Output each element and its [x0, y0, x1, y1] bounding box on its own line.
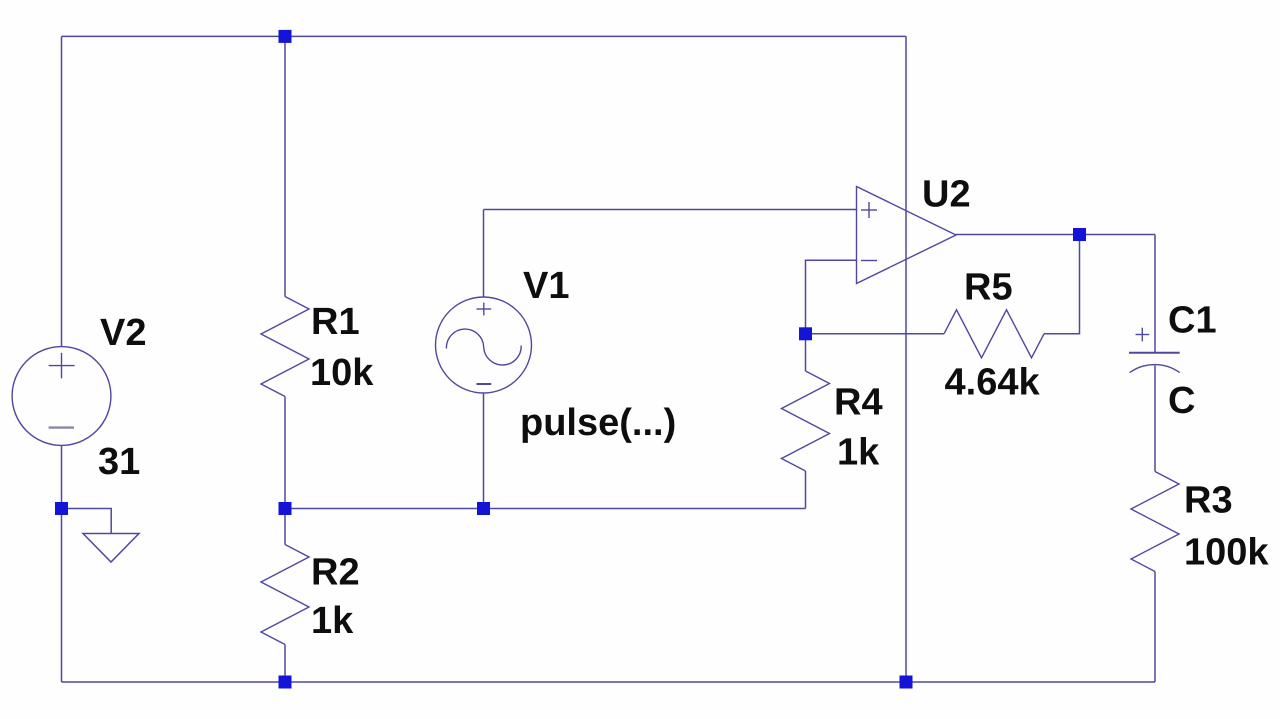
node junction op-amp output: [1073, 228, 1086, 241]
svg-text:100k: 100k: [1184, 532, 1269, 574]
svg-text:V2: V2: [100, 312, 146, 354]
svg-text:C: C: [1168, 380, 1195, 422]
svg-text:pulse(...): pulse(...): [520, 402, 676, 444]
wire R4 top riser: [805, 334, 807, 371]
svg-text:C1: C1: [1168, 300, 1217, 342]
svg-text:10k: 10k: [310, 352, 374, 394]
node junction V2 ground: [55, 502, 68, 515]
wire C1 bottom to R3 top: [1154, 365, 1156, 471]
node junction bottom R2: [279, 676, 292, 689]
resistor R5: [944, 310, 1044, 358]
wire to op-amp noninverting input: [484, 209, 857, 211]
node junction V1 bottom: [477, 502, 490, 515]
wire ground node down to bottom rail: [61, 509, 63, 683]
svg-text:R1: R1: [311, 301, 360, 343]
node junction R1 R2 mid: [279, 502, 292, 515]
node junction top R1: [279, 30, 292, 43]
svg-text:1k: 1k: [837, 432, 880, 474]
wire R2 bottom to bottom rail: [284, 645, 286, 683]
wire R3 bottom to bottom rail: [1154, 572, 1156, 683]
svg-text:31: 31: [98, 441, 140, 483]
wire mid rail: [285, 508, 806, 510]
wire R1 branch from top rail: [284, 36, 286, 296]
svg-text:U2: U2: [922, 174, 971, 216]
wire R1 bottom to mid node: [284, 397, 286, 509]
op-amp U2: [857, 187, 957, 284]
voltage source V1: [436, 297, 532, 393]
node junction bottom right rail: [900, 676, 913, 689]
svg-text:R5: R5: [964, 267, 1013, 309]
wire top rail: [62, 35, 907, 37]
voltage source V2: [12, 347, 111, 446]
resistor R2: [261, 545, 309, 645]
svg-text:R2: R2: [311, 552, 360, 594]
wire output corner down to C1: [1154, 235, 1156, 353]
svg-text:R4: R4: [834, 382, 883, 424]
svg-text:V1: V1: [523, 265, 569, 307]
wire bottom rail: [62, 681, 1156, 683]
wire R4 bottom to mid rail: [805, 471, 807, 509]
wire right rail crossing (top rail down to bottom rail): [905, 36, 907, 682]
wire R5 right to riser: [1044, 235, 1080, 334]
svg-text:R3: R3: [1184, 480, 1233, 522]
capacitor C1: [1129, 328, 1180, 373]
wire mid node to R2 top: [284, 509, 286, 545]
svg-text:1k: 1k: [311, 600, 354, 642]
wire op-amp output: [956, 234, 1155, 236]
resistor R3: [1131, 472, 1179, 572]
wire inverting input stub: [806, 260, 857, 334]
resistor R4: [782, 371, 830, 471]
svg-text:4.64k: 4.64k: [945, 362, 1041, 404]
wire feedback node to R5 left: [806, 333, 945, 335]
wire V1 bottom to mid rail: [483, 393, 485, 509]
ground symbol: [66, 509, 139, 563]
wire V1 top riser: [483, 210, 485, 298]
wire V2 bottom to ground node: [61, 445, 63, 508]
resistor R1: [261, 297, 309, 397]
wire left rail (top corner to V2 top): [61, 36, 63, 346]
node junction feedback R4 R5: [799, 327, 812, 340]
